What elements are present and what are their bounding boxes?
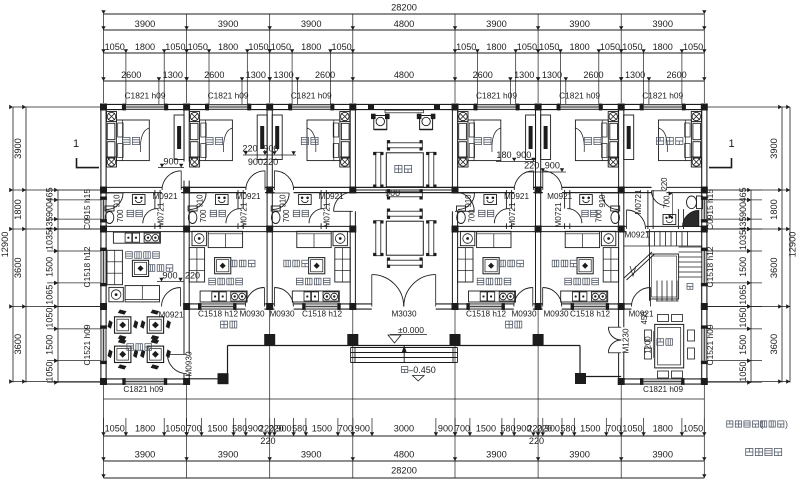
kitchen/small-hall bay1 xyxy=(107,232,173,302)
svg-text:1050: 1050 xyxy=(165,424,185,434)
door M0921 bay5 bedroom xyxy=(514,171,533,190)
dimension line 28200 (bottom overall) xyxy=(101,466,706,479)
svg-text:900: 900 xyxy=(516,150,531,160)
bedroom bay1 furniture xyxy=(107,112,185,168)
svg-text:1035: 1035 xyxy=(738,230,748,250)
bedroom bay6 furniture xyxy=(541,112,619,168)
label M0930 (bay5 door) xyxy=(511,310,536,319)
svg-text:3600: 3600 xyxy=(769,257,779,278)
svg-text:C0915 h15: C0915 h15 xyxy=(82,189,92,230)
svg-text:220: 220 xyxy=(269,424,284,434)
svg-text:C1821 h09: C1821 h09 xyxy=(643,385,684,394)
svg-text:M0921: M0921 xyxy=(319,192,344,201)
svg-text:220: 220 xyxy=(524,161,539,171)
svg-text:3900: 3900 xyxy=(486,19,507,29)
dimension row 2600-1300 (top) xyxy=(101,70,706,104)
window labels C1821 h09 (top row) xyxy=(125,91,684,101)
svg-text:1300: 1300 xyxy=(514,70,534,80)
svg-text:580: 580 xyxy=(501,424,516,434)
svg-text:M3030: M3030 xyxy=(391,310,416,319)
svg-text:1500: 1500 xyxy=(312,424,332,434)
door M1230 dining-west xyxy=(608,327,621,353)
svg-text:900: 900 xyxy=(45,202,55,217)
room label woshi bay5 xyxy=(474,137,491,144)
svg-text:2600: 2600 xyxy=(583,70,603,80)
svg-text:1800: 1800 xyxy=(135,424,155,434)
dim 1200 dining xyxy=(644,331,654,358)
svg-text:1800: 1800 xyxy=(653,42,673,52)
level mark +0.000 xyxy=(388,325,427,343)
svg-text:1800: 1800 xyxy=(135,42,155,52)
svg-text:900: 900 xyxy=(738,202,748,217)
svg-text:3900: 3900 xyxy=(135,450,156,460)
wall: R2 interior left xyxy=(104,187,652,192)
svg-text:700: 700 xyxy=(468,209,477,223)
dimension detail row (bottom) xyxy=(101,418,706,446)
veranda column 1 xyxy=(264,334,275,345)
label M0930 leisure east door xyxy=(185,351,194,376)
svg-text:M0930: M0930 xyxy=(511,310,536,319)
room label woshi bay3 xyxy=(301,137,318,144)
svg-text:–0.450: –0.450 xyxy=(408,365,436,375)
veranda column 4 xyxy=(533,334,544,345)
svg-text:C1521 h09: C1521 h09 xyxy=(82,324,92,365)
svg-text:2600: 2600 xyxy=(473,70,493,80)
label M0921 stair door xyxy=(624,231,649,240)
svg-text:M0721: M0721 xyxy=(240,202,249,227)
kitchen/small-hall bay2 xyxy=(189,231,255,302)
wall: F interior xyxy=(536,107,541,307)
svg-text:12900: 12900 xyxy=(788,232,798,258)
svg-text:1050: 1050 xyxy=(622,424,642,434)
svg-text:2600: 2600 xyxy=(666,70,686,80)
bathroom unit3 xyxy=(271,192,344,228)
svg-text:1050: 1050 xyxy=(456,42,476,52)
svg-text:1800: 1800 xyxy=(218,42,238,52)
svg-text:1050: 1050 xyxy=(622,42,642,52)
wall: D hall-left xyxy=(350,107,355,307)
svg-text:220: 220 xyxy=(537,424,552,434)
svg-text:M0721: M0721 xyxy=(508,202,517,227)
porch up arrow xyxy=(402,346,406,363)
svg-text:3900: 3900 xyxy=(301,19,322,29)
svg-text:1500: 1500 xyxy=(45,257,55,277)
svg-text:700: 700 xyxy=(116,209,125,223)
note jianzhu mianji xyxy=(746,448,782,455)
wall: R3 interior left xyxy=(104,226,353,231)
svg-text:1500: 1500 xyxy=(476,424,496,434)
label C1518 h12 (bay3) xyxy=(302,310,343,319)
wall: C interior xyxy=(267,107,272,307)
door M3030 hall xyxy=(372,275,436,307)
svg-text:3900: 3900 xyxy=(135,19,156,29)
windows C1821 top row xyxy=(123,104,686,111)
room label xiuxianting xyxy=(127,344,152,351)
dim 450 dining xyxy=(640,311,649,325)
svg-text:12900: 12900 xyxy=(0,232,10,258)
svg-text:910: 910 xyxy=(196,194,205,208)
label C1518 h12 (bay2) xyxy=(198,310,239,319)
label M0930 (bay3 door) xyxy=(269,310,294,319)
door hall-left (D) xyxy=(334,192,353,211)
svg-text:3900: 3900 xyxy=(13,138,23,159)
svg-text:1800: 1800 xyxy=(769,199,779,220)
svg-text:28200: 28200 xyxy=(391,3,417,13)
veranda corner column left xyxy=(218,373,229,384)
room label woshi bay1 xyxy=(123,137,140,144)
svg-text:1500: 1500 xyxy=(45,335,55,355)
svg-text:M0930: M0930 xyxy=(543,310,568,319)
svg-text:3900: 3900 xyxy=(218,450,239,460)
svg-text:1300: 1300 xyxy=(542,70,562,80)
svg-text:1500: 1500 xyxy=(207,424,227,434)
wall: right exterior xyxy=(702,107,707,382)
door M0921 dining-top xyxy=(632,288,651,307)
svg-text:M0921: M0921 xyxy=(504,192,529,201)
bathroom unit7 xyxy=(634,177,703,227)
svg-text:910: 910 xyxy=(279,194,288,208)
svg-text:910: 910 xyxy=(464,194,473,208)
svg-text:1800: 1800 xyxy=(301,42,321,52)
wall: bath partition unit 3 xyxy=(321,190,326,229)
svg-text:1050: 1050 xyxy=(45,362,55,382)
svg-text:M0930: M0930 xyxy=(239,310,264,319)
svg-text:M0721: M0721 xyxy=(157,202,166,227)
wall: bath partition unit 7 xyxy=(648,190,653,229)
svg-text:1300: 1300 xyxy=(625,70,645,80)
svg-text:900: 900 xyxy=(438,424,453,434)
svg-text:1065: 1065 xyxy=(738,285,748,305)
room label woshi bay2 xyxy=(206,137,223,144)
label C1821 h09 bay7 bottom xyxy=(643,385,684,394)
svg-text:900220: 900220 xyxy=(248,157,278,167)
dim 900/220 bay1 door xyxy=(157,271,200,282)
svg-text:M0930: M0930 xyxy=(269,310,294,319)
svg-text:1500: 1500 xyxy=(580,424,600,434)
svg-text:1050: 1050 xyxy=(683,424,703,434)
svg-text:M0930: M0930 xyxy=(185,351,194,376)
svg-text:1050: 1050 xyxy=(165,42,185,52)
hall (tangwu) furniture xyxy=(353,110,455,268)
svg-text:M0721: M0721 xyxy=(323,202,332,227)
bedroom bay7 furniture xyxy=(624,112,702,168)
svg-text:3600: 3600 xyxy=(13,257,23,278)
svg-text:4800: 4800 xyxy=(394,19,415,29)
svg-text:C1518 h12: C1518 h12 xyxy=(82,246,92,287)
bottom extension lines xyxy=(104,310,705,479)
left dimension block xyxy=(0,105,101,385)
label M3030 (hall door) xyxy=(391,310,416,319)
svg-text:700: 700 xyxy=(338,424,353,434)
dimension row 3900/4800 (top) xyxy=(101,19,706,30)
dim 900 bay1 door xyxy=(158,157,184,168)
svg-text:1050: 1050 xyxy=(738,362,748,382)
label M0930 (bay6 door) xyxy=(543,310,568,319)
svg-text:2600: 2600 xyxy=(121,70,141,80)
window-end piers top xyxy=(122,104,686,110)
svg-text:C1518 h12: C1518 h12 xyxy=(466,310,507,319)
svg-text:3900: 3900 xyxy=(769,138,779,159)
wall: bath partition unit 1 xyxy=(155,190,160,229)
label M0921 dining door xyxy=(0,0,1,1)
svg-text:3600: 3600 xyxy=(13,334,23,355)
svg-text:450: 450 xyxy=(640,311,649,325)
svg-text:M0721: M0721 xyxy=(634,189,643,214)
door M0921 bay1 bedroom xyxy=(162,171,181,190)
door M0921 stair (top) xyxy=(627,210,646,229)
wall: B interior xyxy=(184,107,189,382)
svg-text:C1518 h12: C1518 h12 xyxy=(198,310,239,319)
svg-text:C1821 h09: C1821 h09 xyxy=(208,91,249,101)
right dimension block xyxy=(707,105,798,385)
svg-text:C1821 h09: C1821 h09 xyxy=(476,91,517,101)
svg-text:1: 1 xyxy=(728,138,734,150)
svg-text:3900: 3900 xyxy=(569,19,590,29)
room label laorenfang bay7 xyxy=(657,137,683,144)
svg-text:1: 1 xyxy=(73,138,79,150)
svg-text:1050: 1050 xyxy=(45,308,55,328)
dims 220/900 at F lower xyxy=(524,161,566,173)
wall: bay7 bath stub xyxy=(678,209,683,229)
svg-text:1800: 1800 xyxy=(13,199,23,220)
door M0921 bay6 bedroom xyxy=(543,171,562,190)
dimension line 28200 (top overall) xyxy=(101,3,706,15)
dims 220/900 at C xyxy=(242,144,296,168)
wall: E hall-right xyxy=(452,107,457,307)
svg-text:4800: 4800 xyxy=(394,450,415,460)
door M0930 leisure-east xyxy=(167,354,186,373)
staircase xyxy=(623,229,702,301)
svg-text:1050: 1050 xyxy=(105,42,125,52)
svg-text:220: 220 xyxy=(660,177,669,191)
svg-text:1050: 1050 xyxy=(539,42,559,52)
svg-text:C1821 h09: C1821 h09 xyxy=(123,385,164,394)
svg-text:1050: 1050 xyxy=(683,42,703,52)
dining table set xyxy=(645,315,695,379)
veranda column 2 xyxy=(347,334,358,345)
wall: top exterior xyxy=(104,104,705,109)
label C1518 h12 (bay6) xyxy=(570,310,611,319)
svg-text:2600: 2600 xyxy=(315,70,335,80)
svg-text:M0921: M0921 xyxy=(152,192,177,201)
wall: bath partition unit 6 xyxy=(565,190,570,229)
svg-text:M0921: M0921 xyxy=(236,192,261,201)
svg-text:900: 900 xyxy=(545,161,560,171)
dims 180/900 at F upper xyxy=(496,150,536,162)
label huanlang left xyxy=(221,321,237,328)
svg-text:1800: 1800 xyxy=(486,42,506,52)
svg-text:M0921: M0921 xyxy=(158,311,183,320)
svg-text:28200: 28200 xyxy=(391,466,417,476)
bedroom bay5 furniture xyxy=(458,112,536,168)
svg-text:910: 910 xyxy=(598,194,607,208)
top extension lines xyxy=(104,14,705,103)
label M0930 (bay2 door) xyxy=(239,310,264,319)
bottom block frame line xyxy=(104,398,705,400)
svg-text:M0721: M0721 xyxy=(554,202,563,227)
svg-text:1050: 1050 xyxy=(271,42,291,52)
svg-text:1035: 1035 xyxy=(45,230,55,250)
svg-text:580: 580 xyxy=(292,424,307,434)
wall: bath partition unit 2 xyxy=(238,190,243,229)
svg-text:900: 900 xyxy=(162,271,177,281)
svg-text:1300: 1300 xyxy=(246,70,266,80)
door M0930 bay6 xyxy=(543,288,562,307)
svg-text:1050: 1050 xyxy=(105,424,125,434)
svg-text:700: 700 xyxy=(663,195,672,209)
bathroom unit6 xyxy=(547,192,620,228)
door M0930 bay2 xyxy=(245,288,264,307)
room label canting xyxy=(657,339,673,346)
dimension row 1050-1800-1050 (top) xyxy=(101,42,706,104)
svg-text:900: 900 xyxy=(163,157,178,167)
svg-text:1500: 1500 xyxy=(738,335,748,355)
svg-text:220: 220 xyxy=(529,436,544,446)
svg-text:3900: 3900 xyxy=(652,450,673,460)
svg-text:±0.000: ±0.000 xyxy=(398,325,424,335)
kitchen/small-hall bay6 xyxy=(552,231,618,302)
window C1821 bay7 bottom xyxy=(640,378,685,385)
svg-text:C1518 h12: C1518 h12 xyxy=(302,310,343,319)
svg-text:3900: 3900 xyxy=(652,19,673,29)
door M0921 bay1-leisure xyxy=(162,288,181,307)
label M1230 xyxy=(622,328,631,353)
svg-text:2600: 2600 xyxy=(204,70,224,80)
veranda front edge xyxy=(228,345,581,347)
svg-text:580: 580 xyxy=(232,424,247,434)
svg-text:1050: 1050 xyxy=(738,308,748,328)
wall: G interior xyxy=(619,107,624,382)
wall: R3 interior right xyxy=(455,226,704,231)
svg-text:220: 220 xyxy=(260,436,275,446)
svg-text:3900: 3900 xyxy=(301,450,322,460)
svg-text:900: 900 xyxy=(355,424,370,434)
section mark 1 right xyxy=(709,138,735,168)
label M0921 leisure door xyxy=(158,311,183,320)
svg-text:C1821 h09: C1821 h09 xyxy=(559,91,600,101)
svg-text:1050: 1050 xyxy=(248,42,268,52)
svg-text:1800: 1800 xyxy=(569,42,589,52)
svg-text:1800: 1800 xyxy=(653,424,673,434)
wall: veranda-side (R4) xyxy=(187,304,632,309)
wall: R2 interior right xyxy=(181,187,704,192)
veranda column 3 xyxy=(450,334,461,345)
wall: bay1 bottom xyxy=(104,379,187,384)
door hall-right (E) xyxy=(455,192,474,211)
svg-text:3000: 3000 xyxy=(394,424,414,434)
svg-text:3900: 3900 xyxy=(486,450,507,460)
wall: bay7 bottom xyxy=(621,379,704,384)
veranda right return xyxy=(580,346,621,377)
kitchen/small-hall bay5 xyxy=(458,231,524,302)
kitchen/small-hall bay3 xyxy=(284,231,350,302)
wall: left exterior xyxy=(101,107,106,382)
bedroom bay3 furniture xyxy=(272,112,350,168)
svg-text:1050: 1050 xyxy=(517,42,537,52)
svg-text:700: 700 xyxy=(282,209,291,223)
leisure room tables xyxy=(108,310,171,370)
note jianzhu mianji (han men ting) xyxy=(727,419,788,429)
svg-text:4800: 4800 xyxy=(394,70,414,80)
svg-text:700: 700 xyxy=(187,424,202,434)
svg-text:C1821 h09: C1821 h09 xyxy=(125,91,166,101)
label huanlang right xyxy=(506,321,522,328)
door M0930 bay5 xyxy=(514,288,533,307)
windows right wall (C0915,C1518,C1521) xyxy=(701,197,708,365)
structural columns (grid) xyxy=(100,104,708,386)
svg-text:700: 700 xyxy=(606,424,621,434)
porch steps xyxy=(351,348,458,363)
svg-text:580: 580 xyxy=(561,424,576,434)
bathroom unit5 xyxy=(457,192,530,228)
svg-text:C1518 h12: C1518 h12 xyxy=(570,310,611,319)
svg-text:3600: 3600 xyxy=(769,334,779,355)
svg-text:C1821 h09: C1821 h09 xyxy=(291,91,332,101)
dimension row 3900/4800 (bottom) xyxy=(101,450,706,462)
window C1821 bay1 bottom xyxy=(122,378,167,385)
wall: bath partition unit 4 xyxy=(506,190,511,229)
svg-text:): ) xyxy=(785,419,788,429)
svg-text:1050: 1050 xyxy=(331,42,351,52)
svg-text:1300: 1300 xyxy=(163,70,183,80)
svg-text:1065: 1065 xyxy=(45,285,55,305)
veranda left return xyxy=(187,346,228,379)
left window labels xyxy=(82,189,92,366)
svg-text:700: 700 xyxy=(595,209,604,223)
svg-text:1050: 1050 xyxy=(188,42,208,52)
svg-text:M1230: M1230 xyxy=(622,328,631,353)
bedroom bay2 furniture xyxy=(190,112,268,168)
svg-text:220: 220 xyxy=(185,271,200,281)
right window labels xyxy=(705,189,715,366)
svg-text:M0921: M0921 xyxy=(547,192,572,201)
label C1821 h09 bay1 bottom xyxy=(123,385,164,394)
svg-text:700: 700 xyxy=(455,424,470,434)
bathroom unit1 xyxy=(105,192,178,228)
windows left wall (C0915,C1518,C1521) xyxy=(100,197,107,365)
svg-text:180: 180 xyxy=(496,150,511,160)
room label woshi bay6 xyxy=(584,137,601,144)
svg-text:C1821 h09: C1821 h09 xyxy=(642,91,683,101)
door M0921 bay3 bedroom xyxy=(274,171,293,190)
svg-text:1300: 1300 xyxy=(273,70,293,80)
svg-text:1500: 1500 xyxy=(738,257,748,277)
svg-text:700: 700 xyxy=(199,209,208,223)
svg-text:900: 900 xyxy=(385,188,400,198)
bathroom unit2 xyxy=(188,192,261,228)
door M0921 bay2 bedroom xyxy=(246,171,265,190)
label M0921 (dining top door) xyxy=(628,310,653,319)
windows C1518 veranda side xyxy=(198,303,609,310)
door M0930 bay3 xyxy=(274,288,293,307)
level mark -0.450 xyxy=(402,365,436,381)
svg-text:910: 910 xyxy=(113,194,122,208)
svg-text:1050: 1050 xyxy=(600,42,620,52)
label C1518 h12 (bay5) xyxy=(466,310,507,319)
svg-text:3900: 3900 xyxy=(218,19,239,29)
svg-text:3900: 3900 xyxy=(569,450,590,460)
svg-text:M0921: M0921 xyxy=(624,231,649,240)
svg-text:1200: 1200 xyxy=(644,336,653,354)
veranda corner column right xyxy=(575,373,586,384)
section mark 1 left xyxy=(73,138,99,168)
